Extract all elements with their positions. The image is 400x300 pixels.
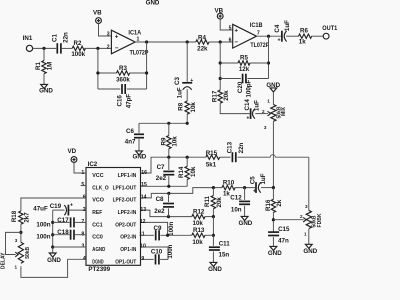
svg-text:3: 3	[305, 204, 308, 209]
svg-text:−: −	[115, 45, 119, 52]
svg-text:R8: R8	[178, 102, 185, 110]
svg-text:R3: R3	[119, 65, 127, 72]
resistor R3 360k	[98, 72, 117, 74]
capacitor C7 2e2	[168, 157, 170, 170]
capacitor C8 2e2	[168, 193, 170, 202]
svg-text:10n: 10n	[231, 206, 242, 213]
svg-text:REF: REF	[92, 210, 102, 216]
svg-text:C15: C15	[278, 226, 290, 233]
svg-text:GND: GND	[39, 88, 53, 95]
capacitor C18 100n	[75, 234, 86, 236]
svg-text:C5: C5	[250, 176, 257, 184]
capacitor C17 100n	[75, 221, 86, 223]
svg-text:15n: 15n	[219, 252, 230, 259]
ground (C6)	[136, 151, 143, 155]
svg-text:1uF: 1uF	[284, 20, 291, 31]
ground (FDBK)	[305, 244, 312, 248]
wire OP1-IN row (pin10)	[141, 247, 169, 259]
svg-text:13: 13	[140, 207, 146, 213]
wire IC1B loop right vertical	[268, 36, 270, 78]
svg-text:GND: GND	[133, 154, 147, 161]
svg-text:OP2-IN: OP2-IN	[120, 235, 136, 241]
svg-text:47n: 47n	[278, 237, 289, 244]
capacitor C11 15n	[209, 246, 220, 248]
svg-text:C8: C8	[156, 196, 164, 203]
capacitor C19 47uF (electrolytic)	[67, 205, 69, 216]
svg-text:LPF1-OUT: LPF1-OUT	[113, 185, 137, 191]
svg-text:22n: 22n	[63, 32, 70, 43]
resistor R10 1k	[222, 185, 235, 189]
svg-text:100n: 100n	[168, 222, 175, 236]
wire pin4 DGND to DELAY bottom	[21, 259, 86, 277]
junction R1 node	[42, 47, 45, 50]
capacitor C6 4n7	[138, 123, 140, 133]
ground (C12)	[241, 216, 248, 220]
svg-text:2: 2	[107, 44, 110, 50]
svg-text:5: 5	[229, 26, 232, 32]
svg-text:CC1: CC1	[92, 222, 103, 228]
capacitor C13 22n	[231, 152, 233, 162]
svg-text:C19: C19	[50, 203, 62, 210]
wire C1 to R2	[62, 47, 72, 49]
op-amp IC1B TL072P	[233, 24, 257, 48]
resistor R2 100k	[72, 46, 85, 50]
svg-text:+: +	[190, 78, 193, 84]
svg-text:3: 3	[107, 31, 110, 37]
svg-text:AGND: AGND	[92, 247, 105, 253]
wire feedback rail down to FDBK pot	[308, 157, 310, 210]
wire hop over MIX wire	[270, 155, 275, 158]
wire C3 to R8	[186, 89, 188, 101]
svg-text:DGND: DGND	[92, 259, 103, 265]
svg-text:16: 16	[141, 170, 147, 176]
svg-text:10k: 10k	[171, 136, 178, 147]
wire FDBK bottom to ground	[308, 229, 310, 244]
svg-text:C10: C10	[151, 248, 163, 255]
wire IN1 to C1	[33, 47, 57, 49]
svg-text:3: 3	[15, 238, 18, 243]
wire R2 to IC1A pin2	[84, 47, 111, 49]
wire MIX pin3 down through hop to R16 node	[272, 121, 274, 187]
capacitor C3 1uF (electrolytic)	[182, 82, 192, 84]
svg-text:R18: R18	[11, 210, 18, 222]
svg-text:IC1B: IC1B	[250, 22, 263, 29]
terminal OUT1	[323, 33, 329, 39]
wire LPF2-OUT row (pin14)	[141, 188, 222, 198]
svg-text:FDBK: FDBK	[317, 213, 323, 227]
svg-text:−: −	[234, 39, 238, 46]
svg-text:12: 12	[140, 219, 146, 225]
svg-text:C14: C14	[244, 99, 251, 111]
svg-text:+: +	[246, 115, 249, 121]
resistor R18 2k7	[19, 211, 23, 224]
wire R1 top	[43, 48, 45, 60]
svg-text:GND: GND	[239, 220, 253, 227]
wire IC1A output	[135, 41, 196, 43]
svg-text:IC2: IC2	[88, 161, 98, 168]
resistor R14 10k	[186, 157, 188, 166]
svg-text:2k: 2k	[276, 199, 283, 206]
svg-text:2e2: 2e2	[156, 175, 167, 182]
svg-text:C17: C17	[57, 217, 69, 224]
svg-text:1k: 1k	[223, 190, 230, 197]
svg-text:1uF: 1uF	[260, 173, 267, 184]
svg-text:100n: 100n	[36, 234, 50, 241]
capacitor C5 1uF (electrolytic)	[255, 182, 257, 193]
svg-text:3: 3	[264, 125, 267, 130]
resistor R4 22k	[196, 40, 209, 44]
svg-text:TL072P: TL072P	[250, 42, 269, 49]
resistor R6 1k	[299, 34, 312, 38]
svg-text:C9: C9	[154, 225, 162, 232]
wire LPF2-IN row (pin13)	[141, 210, 192, 217]
svg-text:R6: R6	[300, 27, 308, 34]
svg-text:R4: R4	[198, 34, 206, 41]
svg-text:R5: R5	[240, 54, 248, 61]
svg-text:22n: 22n	[238, 142, 245, 153]
wire C4 to R6	[286, 35, 298, 37]
wire summing node vertical	[212, 217, 214, 246]
capacitor C1 22n	[56, 43, 58, 53]
svg-text:R14: R14	[178, 166, 185, 178]
svg-text:LPF2-IN: LPF2-IN	[118, 210, 137, 216]
svg-text:C11: C11	[219, 240, 231, 247]
svg-text:+: +	[115, 34, 119, 41]
svg-text:1uF: 1uF	[254, 100, 261, 111]
svg-text:CLK_O: CLK_O	[92, 185, 109, 191]
potentiometer FDBK 50kB	[306, 210, 311, 228]
wire wiper to FDBK pot	[273, 219, 303, 221]
svg-text:R13: R13	[193, 227, 205, 234]
svg-text:1: 1	[267, 99, 270, 104]
potentiometer DELAY 50kB	[18, 242, 23, 263]
svg-text:MIX: MIX	[281, 106, 287, 116]
svg-text:14: 14	[141, 195, 147, 201]
svg-text:C1: C1	[52, 33, 59, 41]
svg-text:7: 7	[257, 31, 260, 37]
junction pin2 node	[96, 47, 99, 50]
svg-text:C13: C13	[226, 141, 233, 153]
capacitor C9 100n	[141, 234, 154, 236]
svg-text:R11: R11	[204, 195, 211, 207]
svg-text:GND: GND	[208, 266, 222, 273]
junction feedback node	[145, 40, 148, 43]
svg-text:+: +	[70, 202, 73, 208]
wire C5 to MIX/R16 node	[261, 187, 273, 189]
svg-text:R1: R1	[35, 61, 42, 69]
junction C3 node	[186, 40, 189, 43]
svg-text:C4: C4	[274, 24, 281, 32]
wire VD to pin1	[74, 162, 86, 173]
svg-text:GND: GND	[303, 248, 317, 255]
svg-text:R17: R17	[211, 90, 218, 102]
wire VB to IC1A pin3	[99, 24, 112, 37]
wire pin3 AGND	[53, 246, 86, 248]
wire feedback left vertical	[97, 48, 99, 89]
svg-text:100n: 100n	[36, 221, 50, 228]
svg-text:C16: C16	[117, 95, 124, 107]
svg-text:VCC: VCC	[92, 173, 104, 179]
wire DELAY wiper loop	[6, 232, 21, 254]
svg-text:20k: 20k	[216, 197, 223, 208]
wire R10 to C5	[235, 187, 255, 189]
svg-text:C7: C7	[157, 164, 165, 171]
resistor R5 12k	[220, 62, 238, 64]
wire VB to IC1B pin5	[220, 19, 233, 30]
svg-text:VCO: VCO	[92, 198, 104, 204]
svg-text:+: +	[253, 189, 256, 195]
svg-text:IN1: IN1	[23, 35, 33, 42]
ground (R1)	[41, 84, 48, 88]
resistor R12 10k	[192, 214, 205, 218]
wire R4 to IC1B pin6	[209, 41, 233, 43]
svg-text:9: 9	[141, 256, 144, 262]
resistor R13 10k	[192, 233, 205, 237]
svg-text:1k: 1k	[299, 39, 306, 46]
wire R18 to DELAY pot	[20, 224, 22, 242]
svg-text:R12: R12	[193, 208, 205, 215]
wire pin5 stub	[81, 185, 86, 187]
svg-text:100k: 100k	[71, 51, 85, 58]
capacitor C16 47pF	[98, 88, 120, 90]
svg-text:C6: C6	[126, 128, 134, 135]
wire R1 bottom	[43, 74, 45, 85]
capacitor C15 47n	[268, 231, 279, 233]
svg-text:1uF: 1uF	[177, 87, 184, 98]
svg-text:R10: R10	[223, 179, 235, 186]
svg-text:C20: C20	[237, 81, 244, 93]
resistor R16 2k	[272, 188, 274, 200]
svg-text:+: +	[278, 38, 281, 44]
junction R4 output node	[219, 40, 222, 43]
wire ground rail vertical	[52, 210, 54, 253]
wire bias rail	[139, 122, 187, 124]
svg-text:12k: 12k	[239, 66, 250, 73]
svg-text:C18: C18	[57, 229, 69, 236]
resistor R11 20k	[212, 188, 214, 196]
svg-text:15: 15	[141, 182, 147, 188]
capacitor C14 1uF (electrolytic)	[250, 108, 252, 119]
ground (C15)	[270, 246, 277, 250]
svg-text:C12: C12	[230, 194, 242, 201]
capacitor C4 1uF (electrolytic)	[281, 31, 283, 42]
svg-text:1M: 1M	[47, 62, 54, 71]
svg-text:PT2399: PT2399	[88, 266, 110, 273]
svg-text:DELAY: DELAY	[0, 252, 6, 269]
junction FDBK wiper node	[272, 218, 275, 221]
ground (C11)	[210, 262, 217, 266]
wire pin2 REF to C19	[69, 209, 86, 211]
svg-text:1: 1	[304, 231, 307, 236]
resistor R9 10k	[168, 123, 170, 135]
svg-text:GND: GND	[268, 250, 282, 257]
svg-text:LPF2-OUT: LPF2-OUT	[113, 198, 137, 204]
wire R6 to OUT1	[311, 35, 323, 37]
wire IC1B inverting loop left vertical	[219, 42, 221, 90]
svg-text:R16: R16	[265, 199, 272, 211]
svg-text:TL072P: TL072P	[130, 49, 149, 56]
svg-text:OP1-OUT: OP1-OUT	[115, 259, 136, 265]
wire C19 to ground rail	[53, 209, 65, 211]
svg-text:10k: 10k	[190, 102, 197, 113]
svg-text:2: 2	[262, 109, 265, 114]
capacitor C10 100n	[141, 258, 154, 260]
svg-text:OP2-OUT: OP2-OUT	[115, 222, 136, 228]
svg-text:2e2: 2e2	[154, 208, 165, 215]
wire C14 to MIX wiper	[255, 113, 268, 115]
svg-text:R15: R15	[206, 150, 218, 157]
svg-text:100pF: 100pF	[245, 79, 252, 97]
svg-text:LPF1-IN: LPF1-IN	[118, 173, 137, 179]
svg-text:VB: VB	[93, 10, 102, 17]
junction DELAY node	[19, 231, 22, 234]
svg-text:10k: 10k	[190, 166, 197, 177]
svg-text:10k: 10k	[192, 239, 203, 246]
wire OP2-OUT row (pin12)	[141, 222, 168, 235]
IC U2 PT2399	[86, 168, 141, 266]
wire C3 top	[186, 42, 188, 82]
wire R17 to C14	[220, 103, 250, 113]
resistor R17 20k	[218, 90, 222, 103]
svg-text:C3: C3	[174, 76, 181, 84]
svg-text:47uF: 47uF	[33, 205, 48, 212]
svg-text:IC1A: IC1A	[128, 29, 141, 36]
resistor R1	[42, 61, 46, 74]
svg-text:11: 11	[139, 231, 145, 237]
svg-text:6: 6	[229, 38, 232, 44]
svg-text:4n7: 4n7	[125, 139, 136, 146]
svg-text:R9: R9	[161, 137, 168, 145]
svg-text:OP1-IN: OP1-IN	[120, 247, 136, 253]
svg-text:22k: 22k	[197, 46, 208, 53]
resistor R8 10k	[185, 101, 189, 114]
op-amp IC1A TL072P	[111, 30, 135, 54]
svg-text:+: +	[234, 27, 238, 34]
svg-text:2: 2	[300, 214, 303, 219]
svg-text:2k7: 2k7	[24, 212, 31, 223]
wire LPF1-IN rail	[141, 157, 206, 173]
svg-text:360k: 360k	[116, 76, 130, 83]
svg-text:OUT1: OUT1	[322, 25, 337, 32]
svg-text:100n: 100n	[167, 244, 174, 258]
svg-text:47pF: 47pF	[125, 94, 132, 109]
wire R8 to bias rail	[186, 114, 188, 123]
svg-text:5k1: 5k1	[206, 161, 217, 168]
potentiometer MIX 50kB	[272, 92, 274, 105]
capacitor C12 10n	[244, 188, 246, 200]
wire feedback right vertical	[146, 42, 148, 89]
capacitor C20 100pF	[220, 78, 241, 80]
wire LPF1-OUT row (pin15)	[141, 185, 188, 187]
svg-text:GND: GND	[146, 0, 160, 7]
wire IC1B output	[257, 35, 282, 37]
resistor R15 5k1	[206, 155, 220, 159]
svg-text:10: 10	[140, 244, 146, 250]
svg-text:CC0: CC0	[92, 235, 103, 241]
ground (AGND rail)	[49, 253, 56, 257]
svg-text:VD: VD	[67, 148, 76, 155]
svg-text:R2: R2	[74, 40, 82, 47]
svg-text:GND: GND	[47, 257, 61, 264]
wire pin6 VCO to R18	[21, 198, 86, 211]
svg-text:20k: 20k	[223, 90, 230, 101]
svg-text:1: 1	[15, 265, 18, 270]
svg-text:50kB: 50kB	[25, 246, 31, 258]
